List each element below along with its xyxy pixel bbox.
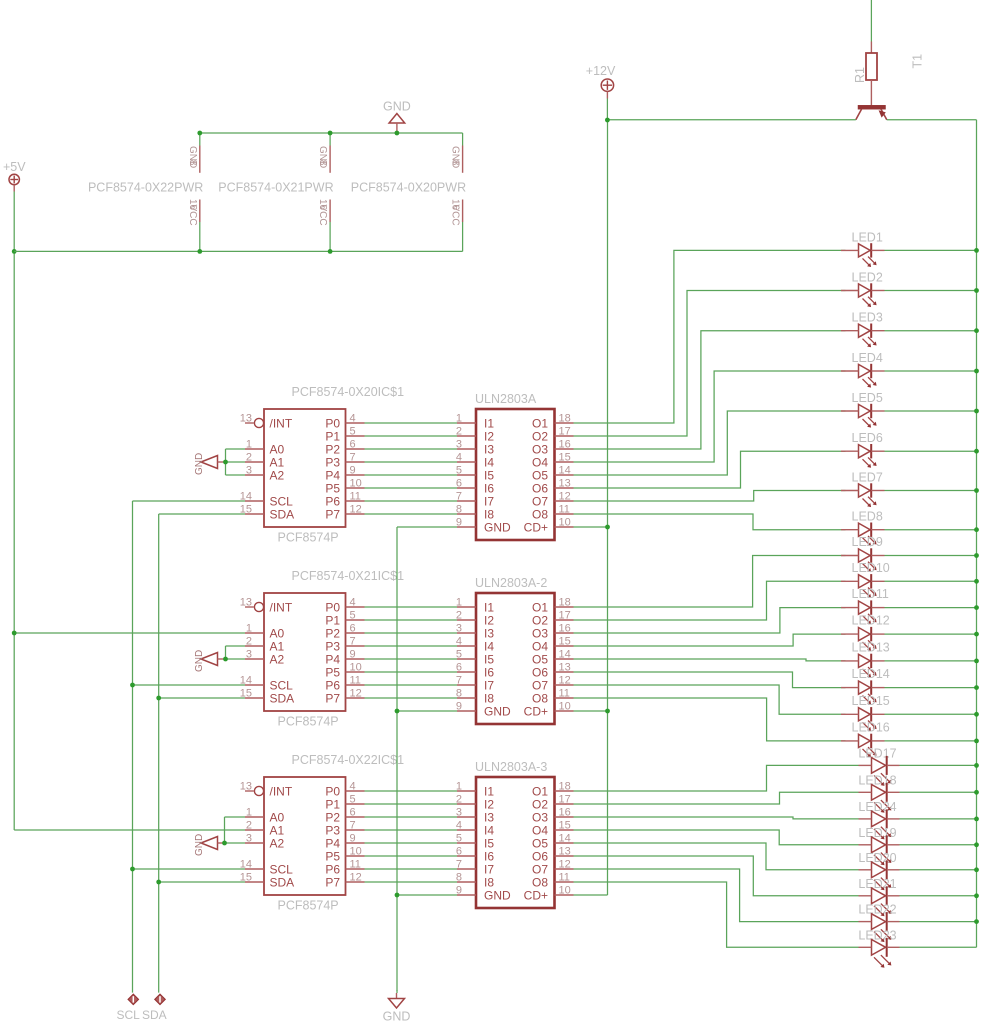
svg-text:P6: P6 [325,678,340,692]
wire O2 ULN2803A-2 to LED10 [574,581,977,620]
svg-text:LED1: LED1 [852,230,883,244]
svg-text:I8: I8 [484,507,494,521]
svg-text:O5: O5 [532,836,548,850]
svg-text:GND: GND [194,453,205,475]
svg-text:LED16: LED16 [852,720,890,734]
LED LED7 [841,471,885,508]
svg-text:8: 8 [450,160,461,166]
svg-text:GND: GND [484,520,511,534]
wire O6 ULN2803A to LED6 [574,451,977,488]
LED LED10 [841,561,890,598]
power symbol +12V [586,64,616,99]
svg-text:VCC: VCC [317,205,328,226]
svg-text:10: 10 [350,662,362,674]
junction LED20 cathode rail [974,867,979,872]
svg-text:7: 7 [350,636,356,648]
svg-text:O5: O5 [532,652,548,666]
node SDA pad [142,994,167,1022]
svg-text:SCL: SCL [270,494,294,508]
svg-text:/INT: /INT [270,600,293,614]
svg-text:A2: A2 [270,468,285,482]
svg-text:P5: P5 [325,481,340,495]
junction SDA at PCF8574-0X21 [156,696,161,701]
wire O4 ULN2803A to LED4 [574,371,977,462]
svg-text:I5: I5 [484,652,494,666]
svg-text:7: 7 [350,820,356,832]
svg-text:15: 15 [559,820,571,832]
junction LED5 cathode rail [974,409,979,414]
junction VCC rail at 0X22 pin [197,249,202,254]
svg-text:I7: I7 [484,678,494,692]
svg-text:P7: P7 [325,507,340,521]
svg-text:7: 7 [350,452,356,464]
wire O7 ULN2803A-2 to LED15 [574,685,977,714]
svg-text:PCF8574-0X20IC$1: PCF8574-0X20IC$1 [292,385,405,399]
svg-text:PCF8574-0X22PWR: PCF8574-0X22PWR [88,181,203,195]
junction GND rail left end [197,131,202,136]
ground symbol GND (bottom) [383,993,411,1024]
svg-text:11: 11 [350,491,361,503]
svg-text:11: 11 [559,872,570,884]
wire address pins to GND at PCF8574-0X20IC$1 [226,449,246,475]
svg-text:I3: I3 [484,810,494,824]
LED LED16 [841,720,890,757]
svg-text:2: 2 [246,820,252,832]
junction LED16 cathode rail [974,739,979,744]
svg-text:LED11: LED11 [852,587,889,601]
wire O2 ULN2803A to LED2 [574,291,977,437]
svg-text:/INT: /INT [270,784,293,798]
junction LED10 cathode rail [974,579,979,584]
svg-text:I7: I7 [484,494,494,508]
LED LED6 [841,431,885,468]
wire O8 ULN2803A-2 to LED16 [574,698,977,741]
wire CD+ pin10 ULN2803A-2 [574,710,608,712]
svg-text:P1: P1 [325,613,340,627]
svg-text:O4: O4 [532,823,548,837]
wire O1 ULN2803A-3 to LED17 [574,765,977,791]
svg-text:I1: I1 [484,784,494,798]
junction LED4 cathode rail [974,369,979,374]
junction LED8 cathode rail [974,527,979,532]
svg-text:O8: O8 [532,691,548,705]
svg-text:10: 10 [350,846,362,858]
svg-text:A0: A0 [270,442,285,456]
svg-text:VCC: VCC [187,205,198,226]
svg-text:LED23: LED23 [858,928,896,942]
svg-text:/INT: /INT [270,416,293,430]
svg-text:6: 6 [350,439,356,451]
junction +5V / VCC rail [12,249,17,254]
svg-text:LED17: LED17 [858,746,896,760]
svg-text:LED2: LED2 [852,271,883,285]
LED LED18 [858,773,899,812]
wire GND pin9 ULN2803A-2 [397,710,457,712]
LED LED12 [841,614,890,651]
svg-text:P5: P5 [325,849,340,863]
svg-text:GND: GND [383,1010,411,1024]
wire address pins to GND at PCF8574-0X21IC$1 [226,646,246,659]
svg-text:O6: O6 [532,481,548,495]
LED LED13 [841,640,890,677]
svg-text:R1: R1 [853,67,867,83]
svg-text:O1: O1 [532,416,548,430]
junction GND net at ULN2803A-2 pin9 [395,709,400,714]
svg-text:I2: I2 [484,797,494,811]
junction GND net at ULN2803A-3 pin9 [395,893,400,898]
svg-text:18: 18 [559,413,571,425]
svg-text:P2: P2 [325,810,340,824]
svg-text:10: 10 [350,478,362,490]
wire O1 ULN2803A-2 to LED9 [574,556,977,608]
svg-text:6: 6 [350,807,356,819]
junction LED24 cathode rail [974,817,979,822]
svg-text:LED6: LED6 [852,431,883,445]
wire O5 ULN2803A to LED5 [574,411,977,475]
LED LED8 [841,510,885,547]
svg-text:I4: I4 [484,639,494,653]
svg-text:O4: O4 [532,455,548,469]
junction SDA at PCF8574-0X22 [156,880,161,885]
wire O4 ULN2803A-2 to LED12 [574,634,977,646]
svg-text:16: 16 [559,439,571,451]
svg-text:I5: I5 [484,468,494,482]
LED LED24 [858,800,899,839]
svg-text:+12V: +12V [586,64,616,78]
LED LED2 [841,271,885,308]
svg-text:LED4: LED4 [852,351,883,365]
junction LED18 cathode rail [974,790,979,795]
svg-text:A1: A1 [270,455,285,469]
svg-text:11: 11 [559,688,570,700]
svg-text:14: 14 [559,649,571,661]
junction LED22 cathode rail [974,919,979,924]
svg-text:3: 3 [246,833,252,845]
svg-text:O2: O2 [532,797,548,811]
wire LED cathode rail (right edge) [976,120,978,948]
wire +5V net vertical [13,192,15,831]
svg-text:3: 3 [246,465,252,477]
svg-text:1: 1 [246,623,252,635]
svg-text:O2: O2 [532,429,548,443]
svg-text:SDA: SDA [270,691,295,705]
junction LED1 cathode rail [974,248,979,253]
junction CD+ at ULN2803A pin10 [605,525,610,530]
svg-text:9: 9 [350,833,356,845]
IC ULN2803A-2 [456,576,574,724]
junction LED15 cathode rail [974,712,979,717]
junction LED17 cathode rail [974,763,979,768]
svg-text:O1: O1 [532,600,548,614]
svg-text:VCC: VCC [450,205,461,226]
junction VCC rail at 0X21 pin [328,249,333,254]
junction GND at PCF8574-0X22IC$1 [222,841,227,846]
svg-text:12: 12 [559,675,571,687]
wire GND pin9 ULN2803A-3 [397,894,457,896]
svg-text:LED9: LED9 [852,535,883,549]
svg-text:I3: I3 [484,626,494,640]
IC ULN2803A [456,392,574,540]
svg-text:A2: A2 [270,652,285,666]
svg-text:15: 15 [559,636,571,648]
svg-text:I8: I8 [484,875,494,889]
svg-text:O8: O8 [532,507,548,521]
IC PCF8574 PCF8574-0X20IC$1 [240,385,404,545]
svg-text:PCF8574-0X21IC$1: PCF8574-0X21IC$1 [292,569,405,583]
svg-text:ULN2803A-3: ULN2803A-3 [475,760,547,774]
ground symbol GND (top) [383,100,411,134]
wire CD+ pin10 ULN2803A-3 [574,894,608,896]
junction LED3 cathode rail [974,328,979,333]
svg-text:4: 4 [350,597,356,609]
junction LED6 cathode rail [974,449,979,454]
svg-text:I4: I4 [484,823,494,837]
wire GND pin9 ULN2803A [397,526,457,528]
wire GND top rail [200,132,463,134]
svg-text:I1: I1 [484,416,494,430]
junction LED21 cathode rail [974,893,979,898]
svg-text:2: 2 [246,452,252,464]
LED LED17 [858,746,899,785]
svg-text:GND: GND [484,704,511,718]
svg-text:17: 17 [559,610,571,622]
svg-text:LED22: LED22 [858,903,896,917]
svg-text:I4: I4 [484,455,494,469]
wire P0-P7 to I1-I8 ULN2803A-3 [365,791,458,882]
svg-text:I3: I3 [484,442,494,456]
svg-text:O3: O3 [532,626,548,640]
svg-text:P0: P0 [325,416,340,430]
wire to R1 from top edge [870,0,872,42]
wire O5 ULN2803A-2 to LED13 [574,659,977,661]
svg-text:10: 10 [559,885,571,897]
svg-text:I2: I2 [484,613,494,627]
wire address pins to GND at PCF8574-0X22IC$1 [225,817,246,843]
svg-text:SCL: SCL [270,862,294,876]
svg-text:SDA: SDA [270,507,295,521]
svg-text:P2: P2 [325,442,340,456]
svg-text:5: 5 [350,610,356,622]
svg-text:P6: P6 [325,494,340,508]
IC PCF8574 PCF8574-0X22IC$1 [240,753,404,913]
svg-text:SDA: SDA [142,1008,167,1022]
svg-text:LED7: LED7 [852,471,883,485]
svg-text:P1: P1 [325,429,340,443]
resistor R1 [853,42,877,106]
junction SCL at PCF8574-0X22 [130,867,135,872]
LED LED22 [858,903,899,942]
svg-text:P6: P6 [325,862,340,876]
svg-text:LED15: LED15 [852,694,890,708]
LED LED5 [841,391,885,428]
svg-text:11: 11 [559,504,570,516]
svg-text:O6: O6 [532,849,548,863]
junction GND rail at GND symbol [395,131,400,136]
wire O3 ULN2803A to LED3 [574,331,977,449]
wire GND net vertical to bottom [396,527,398,991]
wire O6 ULN2803A-2 to LED14 [574,672,977,688]
junction LED14 cathode rail [974,685,979,690]
svg-text:P0: P0 [325,600,340,614]
svg-text:LED24: LED24 [858,800,896,814]
junction GND at PCF8574-0X20IC$1 [223,460,228,465]
svg-text:O7: O7 [532,862,548,876]
svg-text:4: 4 [350,781,356,793]
LED LED19 [858,826,899,865]
LED LED20 [858,851,899,890]
svg-text:A0: A0 [270,626,285,640]
svg-text:P0: P0 [325,784,340,798]
svg-text:I7: I7 [484,862,494,876]
wire O4 ULN2803A-3 to LED19 [574,830,977,845]
svg-text:13: 13 [559,846,571,858]
svg-text:LED8: LED8 [852,510,883,524]
svg-text:P4: P4 [325,652,340,666]
wire O6 ULN2803A-3 to LED21 [574,856,977,896]
svg-text:I5: I5 [484,836,494,850]
LED LED14 [841,667,890,704]
svg-text:PCF8574-0X22IC$1: PCF8574-0X22IC$1 [292,753,405,767]
svg-text:A1: A1 [270,639,285,653]
svg-text:12: 12 [559,859,571,871]
svg-text:15: 15 [559,452,571,464]
junction LED13 cathode rail [974,659,979,664]
LED LED9 [841,535,885,572]
wire O8 ULN2803A to LED8 [574,514,977,530]
junction +12V node [605,118,610,123]
svg-text:12: 12 [350,504,362,516]
junction CD+ at ULN2803A-2 pin10 [605,709,610,714]
wire O3 ULN2803A-3 to LED24 [574,817,977,819]
svg-text:I1: I1 [484,600,494,614]
junction SCL at PCF8574-0X21 [130,683,135,688]
svg-text:9: 9 [350,465,356,477]
svg-text:O2: O2 [532,613,548,627]
svg-text:12: 12 [350,688,362,700]
svg-text:5: 5 [350,426,356,438]
svg-text:I6: I6 [484,481,494,495]
svg-text:GND: GND [383,100,411,114]
svg-text:1: 1 [246,807,252,819]
svg-text:+5V: +5V [3,160,26,174]
wire +12V down to junction [606,99,608,121]
svg-text:CD+: CD+ [524,704,548,718]
wire O7 ULN2803A to LED7 [574,491,977,502]
svg-text:12: 12 [350,872,362,884]
ground symbol GND at PCF8574-0X20IC$1 [194,453,226,475]
svg-text:10: 10 [559,701,571,713]
svg-text:13: 13 [559,478,571,490]
svg-text:11: 11 [350,859,361,871]
svg-text:I2: I2 [484,429,494,443]
svg-text:PCF8574-0X20PWR: PCF8574-0X20PWR [351,181,466,195]
svg-text:P7: P7 [325,691,340,705]
transistor T1 [856,54,925,120]
svg-text:O1: O1 [532,784,548,798]
svg-text:O8: O8 [532,875,548,889]
power block PCF8574-0X20PWR [351,133,466,251]
LED LED11 [841,587,889,624]
svg-text:SCL: SCL [117,1008,141,1022]
svg-text:GND: GND [194,834,205,856]
svg-text:3: 3 [246,649,252,661]
wire SDA net [159,514,245,993]
svg-text:A1: A1 [270,823,285,837]
svg-text:A2: A2 [270,836,285,850]
svg-text:O7: O7 [532,678,548,692]
junction LED11 cathode rail [974,605,979,610]
power symbol +5V [3,160,26,192]
svg-text:ULN2803A-2: ULN2803A-2 [475,576,547,590]
wire +5V to PCF8574-0X22 A1 [14,829,245,831]
wire O7 ULN2803A-3 to LED22 [574,869,977,922]
svg-text:I6: I6 [484,849,494,863]
svg-text:14: 14 [559,465,571,477]
svg-text:P1: P1 [325,797,340,811]
wire O3 ULN2803A-2 to LED11 [574,608,977,633]
junction LED2 cathode rail [974,288,979,293]
svg-text:CD+: CD+ [524,520,548,534]
wire P0-P7 to I1-I8 ULN2803A-2 [365,607,458,698]
junction +5V / A0 branch [12,631,17,636]
svg-text:LED14: LED14 [852,667,890,681]
svg-text:5: 5 [350,794,356,806]
svg-text:11: 11 [350,675,361,687]
wire CD+ vertical net [607,120,609,895]
svg-text:1: 1 [246,439,252,451]
junction LED7 cathode rail [974,488,979,493]
svg-text:PCF8574P: PCF8574P [278,531,339,545]
wire +12V rail to transistor [607,119,855,121]
svg-text:17: 17 [559,426,571,438]
svg-text:LED3: LED3 [852,311,883,325]
svg-text:PCF8574P: PCF8574P [278,715,339,729]
svg-text:LED5: LED5 [852,391,883,405]
wire O1 ULN2803A to LED1 [574,250,977,423]
wire SCL net [133,501,246,993]
junction GND at PCF8574-0X21IC$1 [223,657,228,662]
svg-text:LED21: LED21 [858,877,896,891]
svg-text:2: 2 [246,636,252,648]
wire VCC bottom rail [14,250,462,252]
svg-text:13: 13 [240,597,252,609]
IC PCF8574 PCF8574-0X21IC$1 [240,569,404,729]
wire O8 ULN2803A-3 to LED23 [574,882,977,947]
svg-text:SCL: SCL [270,678,294,692]
svg-text:LED12: LED12 [852,614,890,628]
LED LED3 [841,311,885,348]
svg-text:P2: P2 [325,626,340,640]
svg-text:T1: T1 [911,54,925,69]
svg-text:O6: O6 [532,665,548,679]
junction LED12 cathode rail [974,632,979,637]
svg-text:LED10: LED10 [852,561,890,575]
LED LED23 [858,928,899,967]
svg-text:P3: P3 [325,823,340,837]
node SCL pad [117,994,141,1022]
svg-text:16: 16 [559,807,571,819]
ground symbol GND at PCF8574-0X22IC$1 [194,834,225,856]
svg-text:O3: O3 [532,442,548,456]
svg-text:13: 13 [240,781,252,793]
wire GND to bottom symbol [396,990,398,993]
svg-text:LED20: LED20 [858,851,896,865]
svg-text:P7: P7 [325,875,340,889]
svg-text:P4: P4 [325,468,340,482]
svg-text:18: 18 [559,597,571,609]
svg-text:O5: O5 [532,468,548,482]
svg-text:O4: O4 [532,639,548,653]
